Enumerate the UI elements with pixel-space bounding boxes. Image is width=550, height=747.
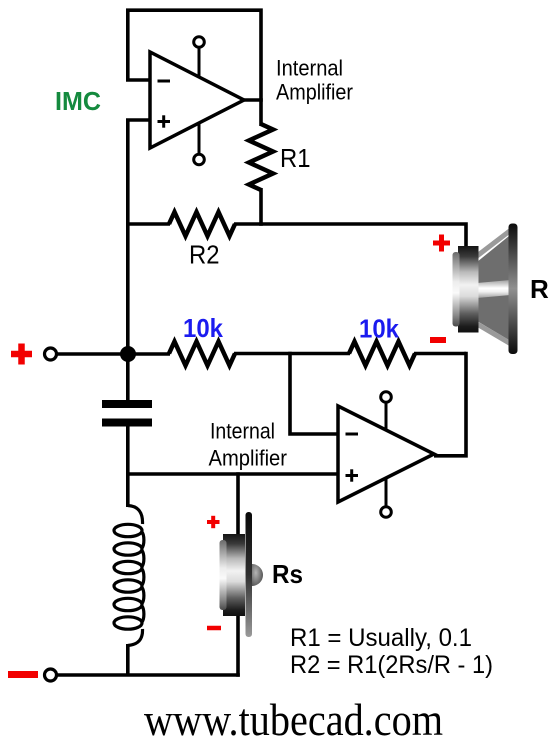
wire Rs branch vertical xyxy=(236,472,240,677)
plus input terminal xyxy=(45,348,57,360)
sense speaker Rs dome xyxy=(252,564,263,586)
op-amp U1 xyxy=(150,52,244,148)
wire between 10k resistors xyxy=(234,352,350,356)
sense speaker Rs baffle xyxy=(246,512,253,637)
loudspeaker R cone lower half xyxy=(477,293,509,340)
resistor 10k right xyxy=(349,342,415,366)
svg-text:Amplifier: Amplifier xyxy=(209,446,288,471)
wire speaker minus down to U2 output xyxy=(434,352,466,456)
svg-text:Rs: Rs xyxy=(272,559,303,589)
wire inductor top lead xyxy=(126,472,130,507)
loudspeaker R top strut xyxy=(477,230,511,256)
resistor 10k left xyxy=(169,342,235,366)
junction node at input rail xyxy=(120,346,136,362)
sense speaker Rs red plus xyxy=(207,516,220,528)
label Internal Amplifier (bottom) xyxy=(209,419,288,471)
wire input rail from plus terminal to 10k xyxy=(58,352,171,356)
loudspeaker R red minus xyxy=(430,337,446,343)
wire inductor bottom lead xyxy=(126,644,130,675)
wire U1 output stub xyxy=(244,98,263,102)
loudspeaker R cone upper half xyxy=(477,236,509,285)
svg-text:www.tubecad.com: www.tubecad.com xyxy=(144,694,443,745)
op-amp U2 minus sign xyxy=(346,433,359,436)
svg-text:Amplifier: Amplifier xyxy=(276,80,353,105)
svg-text:Internal: Internal xyxy=(276,56,343,81)
svg-text:R2 = R1(2Rs/R - 1): R2 = R1(2Rs/R - 1) xyxy=(290,651,493,679)
wire 10k right to speaker minus xyxy=(414,352,466,356)
svg-text:R: R xyxy=(530,274,549,304)
wire bottom rail from minus terminal xyxy=(58,673,240,677)
inductor L1 coil xyxy=(114,506,144,646)
plus input terminal red plus xyxy=(11,344,32,365)
wire U2 noninverting input rail xyxy=(126,472,340,476)
loudspeaker R red plus xyxy=(433,235,450,252)
label Internal Amplifier (top) xyxy=(276,56,353,105)
capacitor C1 plate bottom xyxy=(102,419,152,427)
op-amp U2 power pin top xyxy=(385,401,388,431)
loudspeaker R baffle xyxy=(509,224,518,355)
svg-text:10k: 10k xyxy=(183,313,223,343)
op-amp U1 power pin bottom xyxy=(198,122,201,155)
wire R2 rail right segment to speaker plus xyxy=(234,224,466,250)
minus input terminal xyxy=(45,669,57,681)
svg-text:R1 = Usually, 0.1: R1 = Usually, 0.1 xyxy=(290,624,472,652)
wire capacitor top lead xyxy=(126,352,130,400)
resistor R1 xyxy=(249,124,273,190)
wire R1 bottom to R2 rail xyxy=(259,188,263,226)
minus input terminal red dash xyxy=(8,671,38,678)
sense speaker Rs magnet rim xyxy=(220,540,227,610)
op-amp U2 plus sign xyxy=(346,469,359,481)
op-amp U1 power pin top xyxy=(198,46,201,78)
wire U1 noninverting input and main left vertical to junction xyxy=(128,120,150,354)
loudspeaker R magnet xyxy=(458,246,479,333)
loudspeaker R bottom strut xyxy=(477,324,511,344)
svg-text:Internal: Internal xyxy=(210,419,275,444)
sense speaker Rs red minus xyxy=(207,626,221,631)
wire U1 feedback loop (inverting input to top rail to R1 top) xyxy=(128,10,261,126)
svg-text:R2: R2 xyxy=(189,240,220,270)
wire U2 inverting input from input rail xyxy=(290,352,340,434)
resistor R2 xyxy=(169,212,235,236)
loudspeaker R middle band xyxy=(477,280,510,298)
svg-text:10k: 10k xyxy=(359,314,399,344)
op-amp U1 plus sign xyxy=(158,115,171,127)
sense speaker Rs magnet xyxy=(223,534,245,616)
svg-text:R1: R1 xyxy=(280,143,311,173)
op-amp U2 xyxy=(338,406,434,502)
capacitor C1 plate top xyxy=(102,400,152,408)
op-amp U1 minus sign xyxy=(158,80,171,83)
wire R2 rail left segment xyxy=(126,222,170,226)
wire capacitor bottom lead xyxy=(126,427,130,476)
svg-text:IMC: IMC xyxy=(55,86,101,116)
loudspeaker R magnet rim xyxy=(453,252,460,327)
op-amp U2 power pin bottom xyxy=(385,477,388,508)
